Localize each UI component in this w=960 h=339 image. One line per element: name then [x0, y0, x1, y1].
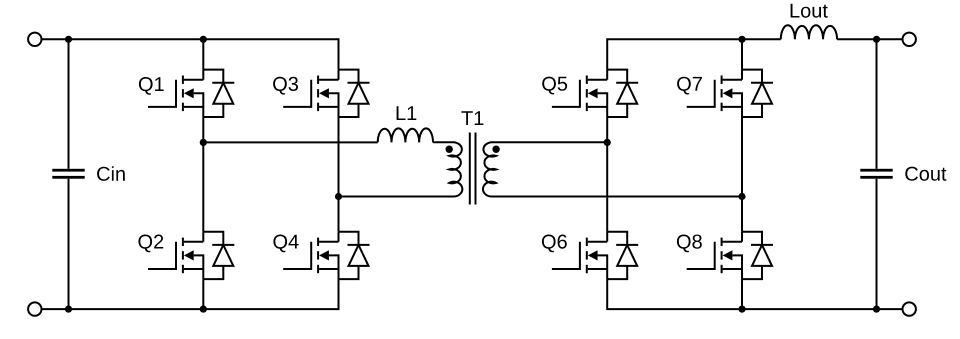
label Q8: [677, 235, 702, 253]
node dot top rail Cin: [65, 36, 72, 43]
transistor Q1: [148, 70, 234, 117]
node dot top rail Q1: [200, 36, 207, 43]
terminal top-left: [28, 33, 41, 46]
wire Q1 drain stub: [202, 39, 204, 69]
wire top rail right (left of Lout): [607, 39, 781, 69]
wire Cin bottom: [68, 179, 70, 309]
wire Cout bottom: [876, 179, 878, 309]
label Lout: [791, 4, 828, 18]
node A dot: [200, 139, 207, 146]
wire top rail right (right of Lout): [837, 38, 902, 40]
transformer T1 core: [470, 133, 476, 205]
polarity dot T1 primary: [446, 146, 453, 153]
label Q2: [138, 235, 163, 253]
label L1: [397, 106, 417, 120]
wire bottom rail right: [607, 279, 902, 309]
wire bottom rail left: [42, 279, 339, 309]
wire Q8 source stub: [741, 279, 743, 309]
node dot bottom rail Q8: [738, 306, 745, 313]
label Q1: [139, 77, 164, 95]
label Cout: [905, 167, 946, 181]
wire Cin top: [68, 39, 70, 169]
node dot Q5 midpoint: [604, 139, 611, 146]
transistor Q6: [552, 232, 638, 279]
label Q6: [542, 235, 567, 253]
wire Cout top: [876, 39, 878, 169]
node B dot: [335, 193, 342, 200]
wire top rail left: [42, 39, 339, 69]
wire Q7-Q8 column: [741, 117, 743, 232]
label T1: [461, 111, 483, 125]
node dot bottom rail Q2: [200, 306, 207, 313]
label Q4: [273, 235, 298, 253]
node dot bottom rail Cout: [873, 306, 880, 313]
node dot Q7 midpoint: [738, 193, 745, 200]
label Q5: [542, 77, 567, 95]
terminal bottom-right: [903, 302, 916, 315]
transistor Q2: [148, 232, 234, 279]
capacitor Cout: [860, 169, 892, 179]
transistor Q7: [687, 70, 773, 117]
transformer T1 primary winding: [339, 142, 463, 196]
node dot top rail Q7: [738, 36, 745, 43]
label Q3: [273, 77, 298, 95]
wire Q2 source stub: [202, 279, 204, 309]
terminal top-right: [903, 33, 916, 46]
transistor Q4: [283, 232, 369, 279]
wire Q5-Q6 column: [606, 117, 608, 232]
label Q7: [677, 77, 702, 95]
wire Q7 drain stub: [741, 39, 743, 69]
transistor Q3: [283, 70, 369, 117]
label Cin: [97, 166, 125, 181]
transistor Q8: [687, 232, 773, 279]
wire Q1-Q2 column: [202, 117, 204, 232]
terminal bottom-left: [28, 302, 41, 315]
inductor Lout: [781, 25, 837, 39]
node dot top rail Cout: [873, 36, 880, 43]
transistor Q5: [552, 70, 638, 117]
polarity dot T1 secondary: [492, 146, 499, 153]
inductor L1: [378, 128, 433, 142]
wire Q3-Q4 column: [338, 117, 340, 232]
wire node A to L1: [203, 141, 377, 143]
transformer T1 secondary winding: [483, 142, 742, 196]
node dot bottom rail Cin: [65, 306, 72, 313]
capacitor Cin: [52, 169, 84, 179]
